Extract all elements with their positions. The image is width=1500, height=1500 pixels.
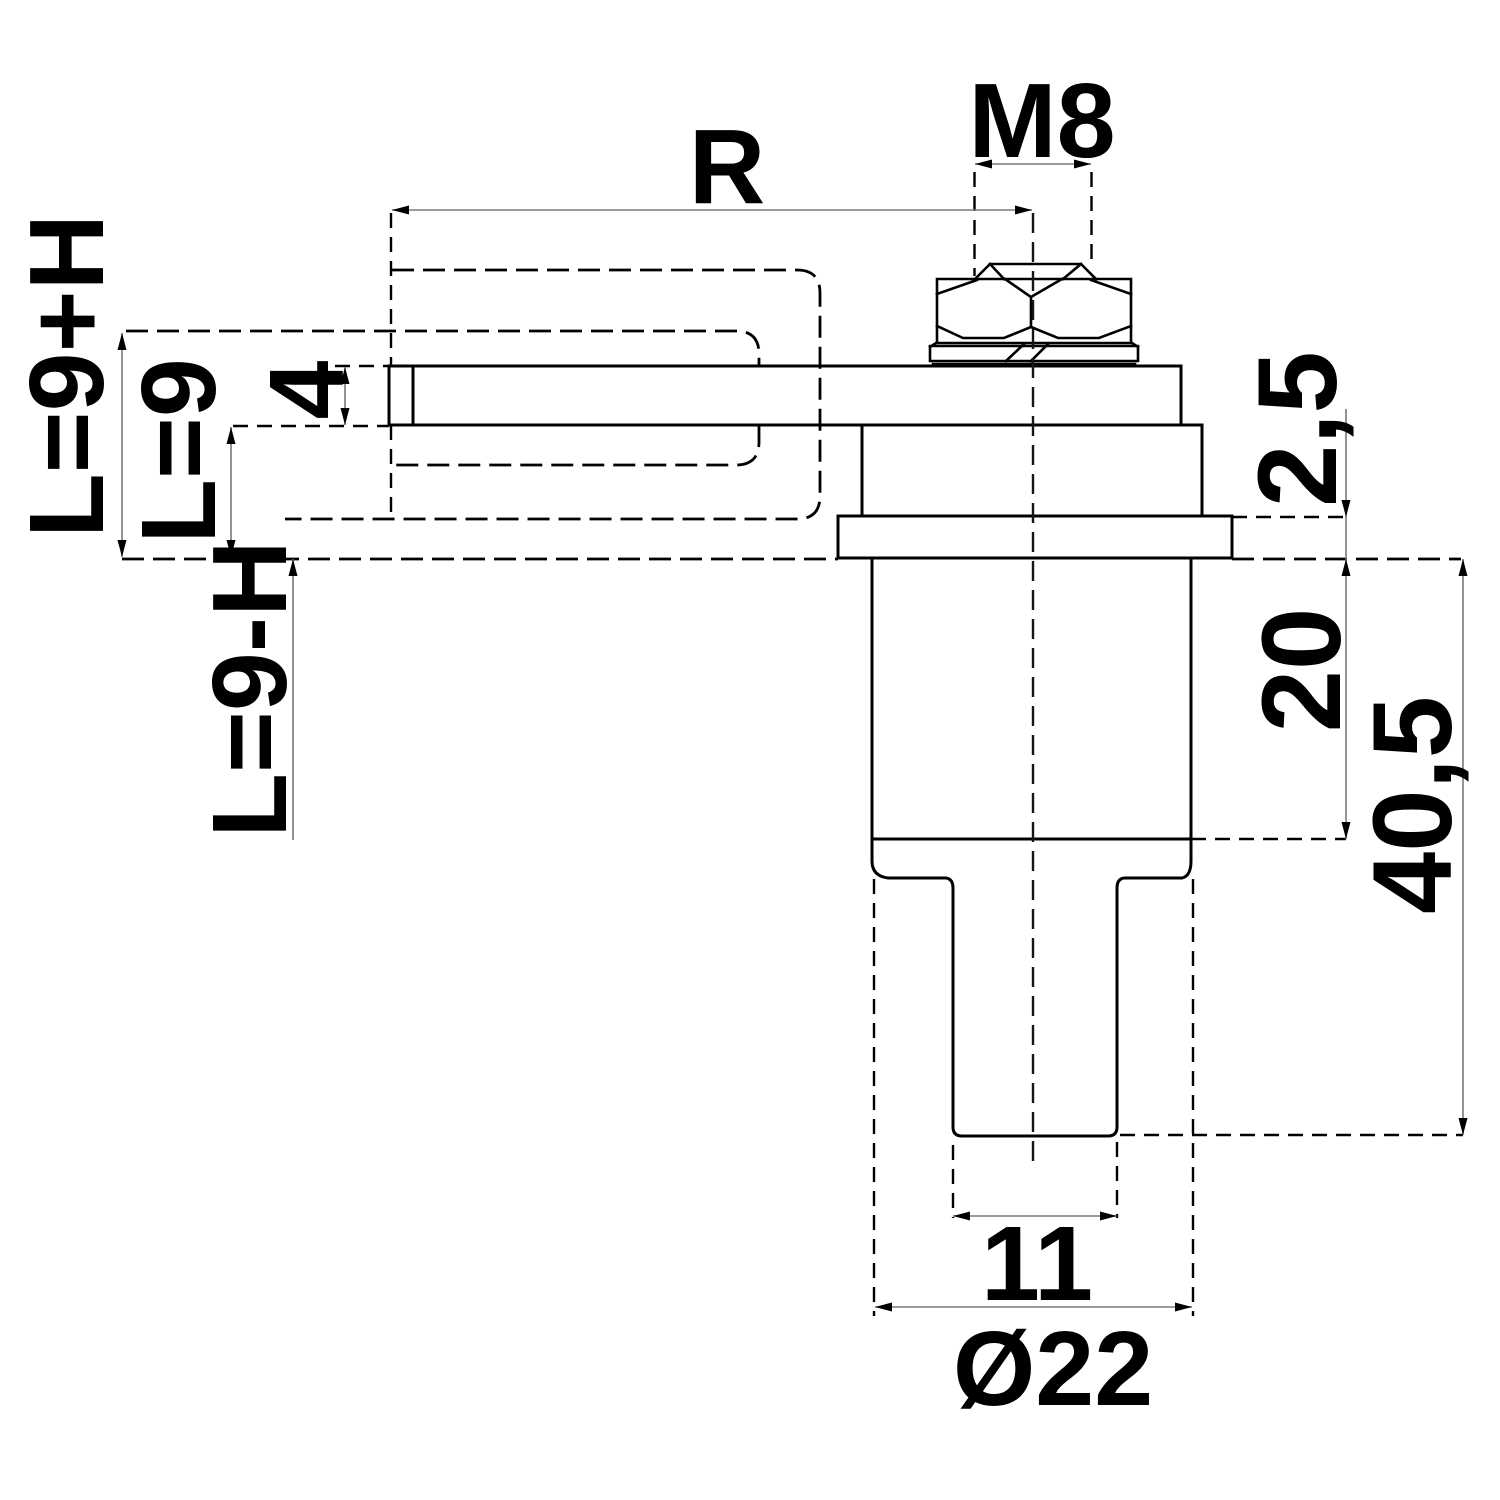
svg-text:11: 11 [981, 1205, 1093, 1323]
svg-text:Ø22: Ø22 [953, 1310, 1153, 1428]
svg-text:2,5: 2,5 [1235, 351, 1360, 507]
svg-text:L=9+H: L=9+H [8, 214, 126, 538]
svg-text:4: 4 [248, 360, 366, 419]
svg-text:R: R [689, 108, 766, 226]
svg-text:L=9: L=9 [120, 358, 238, 544]
svg-text:L=9-H: L=9-H [191, 540, 309, 837]
svg-text:40,5: 40,5 [1350, 696, 1475, 914]
svg-text:20: 20 [1239, 608, 1364, 733]
svg-text:M8: M8 [968, 62, 1115, 180]
